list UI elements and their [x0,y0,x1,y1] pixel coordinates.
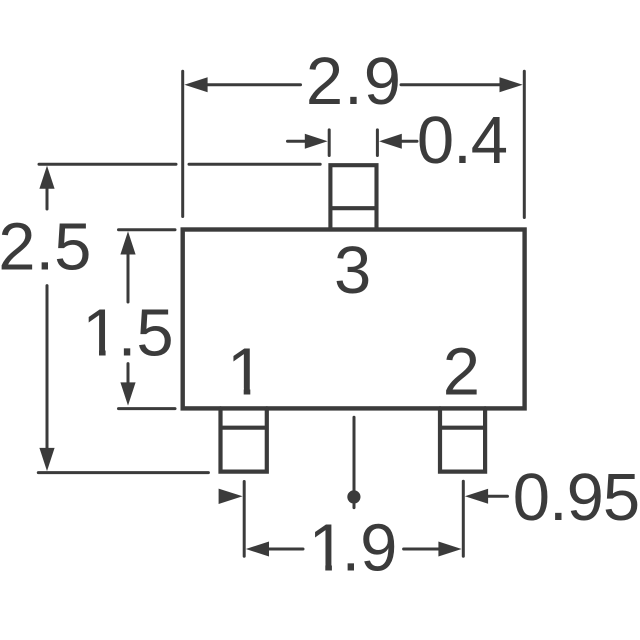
dimension 1.9 line right segment [404,548,440,551]
dimension 0.4 leader right [402,140,418,143]
arrowhead 2.5 top [39,166,54,189]
package center line [353,417,356,507]
arrowhead 1.5 bottom [120,382,135,405]
arrowhead 0.4 right [379,134,402,149]
svg-text:.9: .9 [342,510,398,585]
svg-text:1: 1 [82,296,119,371]
svg-text:2: 2 [443,335,480,410]
pin 3 lead [330,165,376,229]
package center dot [347,490,360,503]
pin 1 center extension line [243,482,246,557]
arrowhead 2.9 left [184,77,207,92]
dimension 2.5 extension line top [39,163,320,166]
package body [183,230,525,409]
dimension 0.4 tick left [328,130,331,156]
arrowhead 2.5 bottom [39,448,54,471]
dimension 2.9 line right segment [401,83,504,86]
svg-text:2.9: 2.9 [306,44,402,119]
serif cover for digit 1 of 1.9 [311,564,326,573]
dimension 1.5 line lower segment [127,364,130,384]
svg-text:.5: .5 [118,296,174,371]
arrowhead 0.95 [465,489,488,504]
arrowhead 0.4 left [305,134,328,149]
arrowhead 2.9 right [500,77,523,92]
dimension 2.9 line left segment [206,83,301,86]
pin 1 lead [221,408,267,471]
dimension 2.9 extension line left [181,71,184,216]
arrowhead pin1 center (bare) [219,489,243,504]
dimension 0.4 tick right [376,130,379,156]
dimension 2.9 extension line right [523,71,526,217]
pin 2 center extension line [462,481,465,556]
serif cover for digit 1 of 1.5 [84,349,99,358]
dimension 1.5 extension line top [119,228,176,231]
svg-text:3: 3 [334,233,371,308]
svg-text:1: 1 [227,335,264,410]
dimension 0.4 leader left [288,140,306,143]
arrowhead 1.9 left [246,542,269,557]
svg-text:0.4: 0.4 [417,103,507,178]
dimension 2.5 extension line bottom [38,471,208,474]
svg-text:0.95: 0.95 [513,460,639,535]
arrowhead 1.9 right [438,542,461,557]
dimension 2.5 line lower segment [46,286,49,450]
svg-text:1: 1 [309,510,346,585]
pin 2 lead [440,408,485,471]
dimension 1.9 line left segment [267,548,303,551]
dimension 1.5 extension line bottom [119,407,176,410]
dimension 2.5 line upper segment [46,187,49,210]
serif cover for pin label 1 [229,388,244,397]
dimension 0.95 leader shaft [487,495,508,498]
dimension 1.5 line upper segment [127,253,130,303]
arrowhead 1.5 top [120,231,135,254]
svg-text:2.5: 2.5 [0,210,91,285]
